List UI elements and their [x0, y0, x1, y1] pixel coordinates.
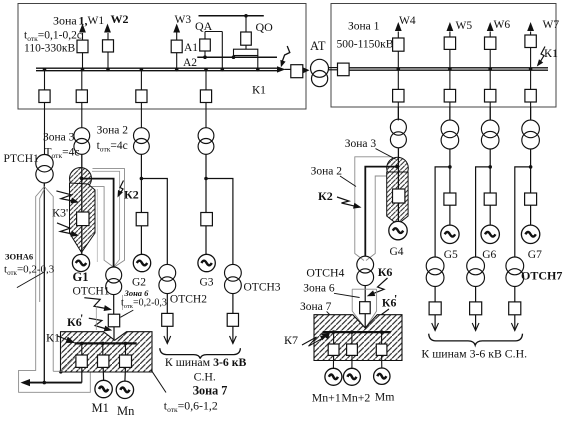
- svg-text:К шинам 3-6 кВ С.Н.: К шинам 3-6 кВ С.Н.: [421, 347, 527, 361]
- svg-text:ЗОНА6: ЗОНА6: [5, 252, 33, 262]
- svg-text:Мn+2: Мn+2: [341, 391, 370, 405]
- svg-text:А2: А2: [183, 57, 197, 69]
- svg-text:W2: W2: [111, 12, 129, 26]
- svg-text:110-330кВ: 110-330кВ: [24, 43, 75, 55]
- svg-text:Зона 1: Зона 1: [348, 21, 380, 33]
- svg-text:W1: W1: [88, 15, 105, 27]
- svg-text:Мm: Мm: [375, 390, 395, 404]
- svg-text:W4: W4: [399, 15, 416, 27]
- svg-text:Зона 6: Зона 6: [303, 283, 335, 295]
- svg-text:С.Н.: С.Н.: [194, 370, 216, 384]
- svg-text:К шинам 3-6 кВ: К шинам 3-6 кВ: [165, 355, 247, 369]
- svg-text:К1: К1: [46, 331, 60, 345]
- svg-text:К7: К7: [284, 333, 298, 347]
- svg-text:ОТСН7: ОТСН7: [521, 269, 562, 283]
- svg-text:ОТСН4: ОТСН4: [306, 266, 344, 280]
- svg-text:М1: М1: [92, 401, 109, 415]
- svg-text:ОТСН1: ОТСН1: [73, 286, 110, 298]
- svg-text:G3: G3: [200, 277, 214, 289]
- svg-text:Зона 3: Зона 3: [43, 132, 75, 144]
- svg-text:': ': [394, 292, 397, 306]
- svg-text:G6: G6: [482, 249, 496, 261]
- svg-text:QO: QO: [256, 20, 274, 34]
- svg-text:К1: К1: [252, 83, 266, 97]
- svg-text:W6: W6: [494, 19, 511, 31]
- svg-text:G4: G4: [390, 246, 404, 258]
- svg-text:Зона 7: Зона 7: [300, 301, 332, 313]
- svg-text:G2: G2: [132, 277, 146, 289]
- svg-text:К3': К3': [52, 206, 68, 220]
- svg-text:РТСН1: РТСН1: [4, 153, 40, 165]
- svg-text:ОТСН2: ОТСН2: [170, 294, 207, 306]
- svg-text:Зона 7: Зона 7: [193, 384, 228, 398]
- svg-text:Зона: Зона: [53, 14, 77, 28]
- svg-text:G7: G7: [528, 249, 542, 261]
- svg-text:Мn: Мn: [117, 404, 135, 418]
- svg-text:W5: W5: [456, 20, 473, 32]
- svg-text:W7: W7: [543, 19, 560, 31]
- svg-text:К2: К2: [318, 189, 333, 203]
- svg-text:QA: QA: [195, 19, 213, 33]
- svg-text:Зона 2: Зона 2: [97, 125, 129, 137]
- svg-text:Зона 6: Зона 6: [124, 288, 150, 298]
- svg-text:К6: К6: [378, 265, 393, 279]
- svg-text:Мn+1: Мn+1: [312, 391, 341, 405]
- svg-text:ОТСН3: ОТСН3: [244, 282, 281, 294]
- svg-text:К1: К1: [544, 46, 558, 60]
- svg-text:W3: W3: [175, 14, 192, 26]
- svg-text:АТ: АТ: [310, 39, 326, 53]
- svg-text:G5: G5: [444, 249, 458, 261]
- svg-text:К2: К2: [124, 188, 139, 202]
- svg-text:500-1150кВ: 500-1150кВ: [337, 39, 394, 51]
- svg-text:G1: G1: [73, 270, 89, 284]
- svg-text:1,: 1,: [79, 14, 88, 28]
- svg-text:Зона 2: Зона 2: [311, 166, 343, 178]
- svg-text:': ': [80, 311, 83, 325]
- svg-text:Зона 3: Зона 3: [345, 138, 377, 150]
- svg-text:А1: А1: [184, 42, 198, 54]
- svg-text:Тотк=4с: Тотк=4с: [45, 147, 80, 161]
